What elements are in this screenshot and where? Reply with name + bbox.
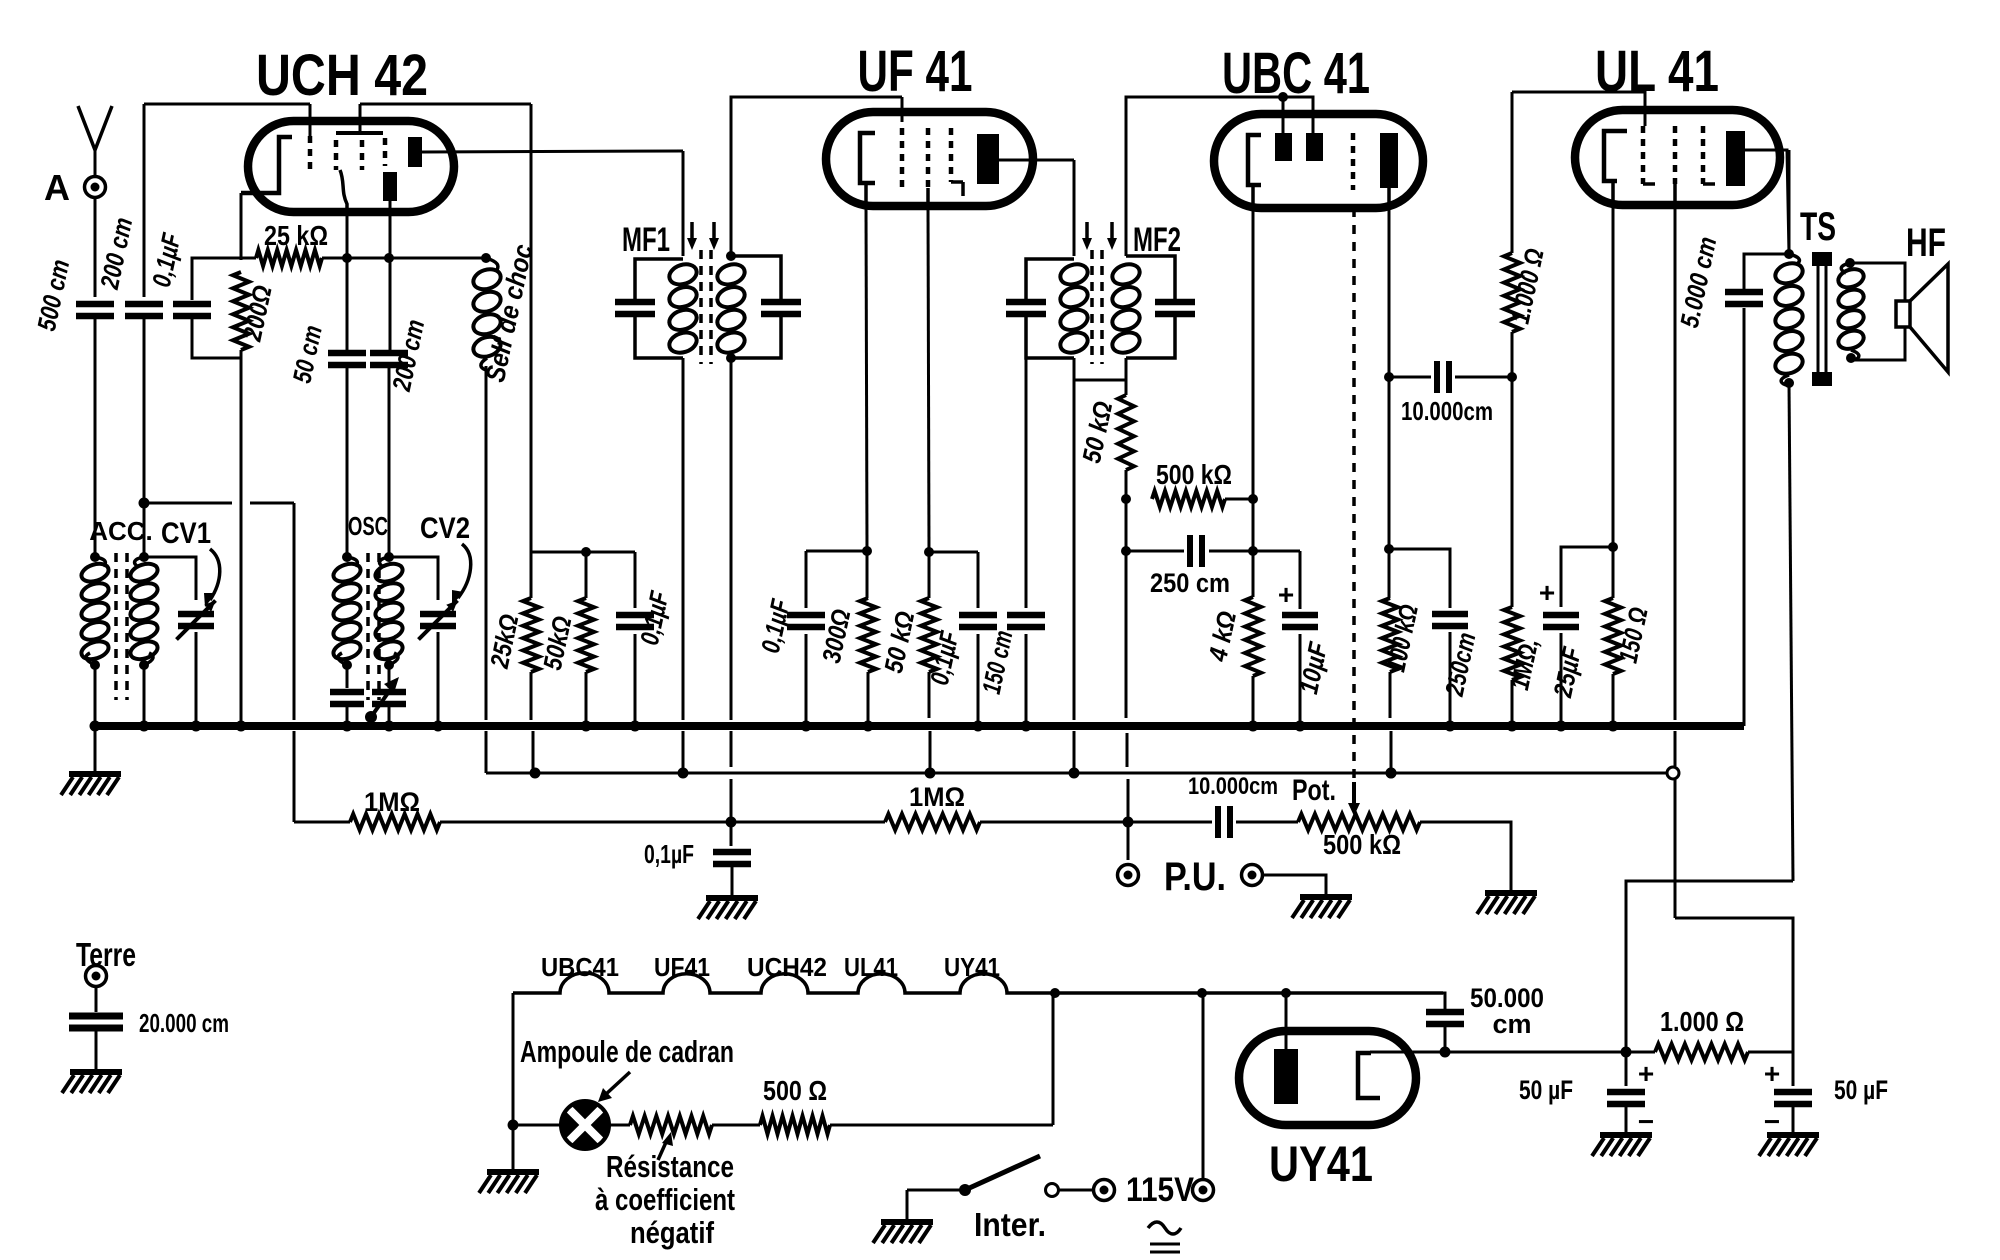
node B1 [1621,1047,1632,1058]
node bus 95 [90,721,101,732]
svg-text:MF1: MF1 [622,221,670,259]
svg-text:A: A [44,167,70,208]
pin UF41 g1 top [901,97,904,122]
wire top right [360,103,531,106]
coil ACC secondary [128,561,160,585]
svg-text:500 kΩ: 500 kΩ [1323,829,1401,860]
tube UBC41 [1214,114,1423,208]
tube UCH42 [248,121,454,212]
wire avc pu [1125,551,1128,718]
svg-text:+: + [1278,579,1294,610]
capacitor 10.000cm pu [1215,806,1221,838]
grid g1 UF41 [900,128,905,188]
resistor 50kOhm vert [585,552,588,598]
capacitor 25uF [1543,612,1579,619]
node 10uF bus [1295,721,1306,732]
svg-text:MF2: MF2 [1133,221,1181,259]
node MF2 rail [1069,768,1080,779]
wire MF1 feed [682,151,685,256]
node heater 1055 [1050,988,1060,998]
wire 200cm line lower [143,316,146,557]
wire bus up right [1743,308,1746,726]
svg-text:1MΩ: 1MΩ [364,787,420,817]
wire 200cm to OSC [388,365,391,557]
node TS top [1784,249,1794,259]
wire grid return top [144,502,232,505]
wire UY41 anode pin [1285,993,1288,1049]
wire ACC p down [94,663,97,726]
cathode UBC41 [1248,135,1261,185]
grid lead curve [340,170,347,212]
wire UBC41 cathode [1251,185,1255,208]
ground pot [1485,890,1537,896]
wire 10000cm row [1389,376,1431,379]
node heater 1286 [1281,988,1291,998]
svg-text:ACC.: ACC. [89,516,153,546]
svg-text:UY41: UY41 [1269,1136,1373,1192]
svg-text:500 Ω: 500 Ω [763,1075,827,1106]
node OSC s top [384,552,394,562]
svg-text:Inter.: Inter. [974,1206,1046,1243]
node bus 389 [384,721,395,732]
resistor 200Ohm [233,272,249,350]
svg-text:UF 41: UF 41 [858,39,973,104]
capacitor 0,1uF g2 [977,552,980,608]
supply rail [488,772,1671,775]
ground switch [881,1219,933,1225]
wire cath right [1445,1051,1655,1054]
wire choke to rail [485,731,488,773]
core TS [1817,256,1820,385]
svg-text:TS: TS [1800,205,1836,249]
node avc pu [1123,817,1134,828]
node 25k-a [384,253,394,263]
antenna A [78,106,112,150]
wire 500k right [1225,498,1253,501]
core OSC [366,553,370,700]
node 806 bus [801,721,812,732]
node 0,1uF bus [630,721,641,732]
wire cathode down [240,193,243,260]
node 150 bus [1608,721,1619,732]
transformer MF2 secondary [1110,261,1143,288]
resistor 500Ohm [760,1116,830,1134]
wire TS down [1789,383,1793,881]
node 250b bus [1445,721,1456,732]
wire 200cm line upper [143,104,146,297]
node 200cm-y503 [139,498,150,509]
transformer TS primary [1789,254,1799,264]
node avc 731 [726,817,737,828]
node avc 250 [1121,546,1131,556]
resistor 150Ohm [1612,547,1615,598]
node ACC p top [90,552,100,562]
wire 250b row [1389,549,1450,608]
grid UBC41 [1351,133,1356,190]
ground terre [70,1069,122,1075]
node bus 196 [191,721,202,732]
core MF2 [1090,250,1094,364]
wire MF1 sec down [730,362,733,720]
rail end circle [1667,767,1679,779]
svg-text:+: + [1764,1058,1780,1089]
svg-text:UCH 42: UCH 42 [256,43,428,108]
svg-text:P.U.: P.U. [1164,855,1226,899]
ground main [94,726,97,772]
node diode pin [1278,92,1288,102]
svg-text:500 kΩ: 500 kΩ [1156,459,1232,490]
cathode UL41 [1604,131,1627,181]
wire PU2 ground [1263,875,1326,895]
ground 50uF b [1767,1132,1819,1138]
resistor 50kOhm g2 [928,552,931,598]
resistor 1.000Ohm filter [1655,1044,1748,1060]
wire grid to 50cm [346,210,349,352]
capacitor 250cm b [1432,611,1468,618]
wire pot right [1420,822,1511,891]
wire UF41 g2 down [926,188,930,206]
node bus 241 [236,721,247,732]
wire CV1 top [144,557,196,600]
wire 25uF row [1561,547,1613,607]
svg-text:1MΩ: 1MΩ [909,782,965,812]
arrow core MF1 a [690,222,694,242]
node 50k bus [581,721,592,732]
wire res mid [712,1124,760,1127]
wire MF2 prim bottom [1073,358,1076,380]
arrow trimmer [371,683,395,717]
terminal PU 1 [1118,865,1139,886]
node UF41 g2 [924,547,934,557]
diode plate 2 [1306,133,1323,161]
anode heptode UCH42 [408,137,422,167]
capacitor 0,1uF grid [173,301,211,308]
svg-text:Pot.: Pot. [1292,774,1336,807]
wire terre [95,987,98,1012]
transformer MF1 primary [635,259,683,300]
cathode UCH42 [241,137,292,193]
wire 250cm row [1126,550,1184,553]
wire CV1 down [195,632,198,726]
node 4k bus [1248,721,1259,732]
anode UBC41 [1380,133,1398,188]
terminal Terre [86,966,107,987]
wire 50cm to OSC [346,365,349,557]
coil OSC primary [331,561,363,585]
ground heater [487,1169,539,1175]
resistor CTN [609,1124,630,1127]
capacitor 250cm [1187,535,1193,567]
svg-text:UL 41: UL 41 [1595,39,1719,104]
wire res right [830,1124,1053,1127]
wire CV2 down [437,632,440,726]
wire g2 row [929,551,978,554]
wire UL41 g2 top [1512,92,1645,112]
grid g3 UCH42 [334,140,339,170]
wire screen row [531,551,635,554]
grid g1 UCH42 [308,136,313,170]
anode UF41 [977,134,999,184]
ground PU [1300,894,1352,900]
wire rail path [1675,918,1793,1052]
wire 25k right [322,257,486,260]
switch Inter. [959,1184,971,1196]
svg-text:20.000 cm: 20.000 cm [139,1008,229,1038]
wire heater right corner [1443,993,1445,1010]
svg-text:25 kΩ: 25 kΩ [264,220,328,251]
variable capacitor CV1 [178,611,214,618]
svg-text:250 cm: 250 cm [1150,568,1230,598]
resistor 4kOhm [1252,499,1255,597]
wire triode anode [389,201,392,352]
svg-text:Résistance: Résistance [606,1149,734,1184]
capacitor MF1 secondary [761,299,801,306]
node 250 right [1248,546,1258,556]
wire g2 feed down [530,104,533,552]
tube UY41 [1239,1031,1416,1125]
grid g2 UL41 [1673,126,1678,184]
node 150cm bus [1021,721,1032,732]
capacitor 50uF b [1792,1052,1795,1086]
node anode 10000 [1384,372,1394,382]
coil ACC primary [79,561,111,585]
anode UL41 [1726,131,1745,186]
wire 500cm to ACC [94,316,97,557]
svg-text:UBC41: UBC41 [541,952,619,982]
wire UF41 anode [999,159,1074,162]
pin g1 top [309,104,312,136]
wire UF41 grid top [731,97,902,256]
wire filter right [1748,1051,1793,1054]
svg-text:négatif: négatif [630,1215,715,1250]
svg-text:1.000 Ω: 1.000 Ω [1660,1006,1744,1037]
wire k row [806,550,867,553]
node ACC s top [139,552,149,562]
wire UL41 cathode [1611,181,1615,205]
arrow CV1 [210,549,220,600]
node UF41 k [862,546,872,556]
node 0,1uFg2 bus [973,721,984,732]
node 25uF bus [1556,721,1567,732]
avc line 5 [1128,821,1212,824]
capacitor 10uF [1299,551,1302,609]
core MF1 [699,250,703,364]
grid g2 UF41 [926,128,931,188]
resistor 300Ohm [866,551,869,598]
node bus 144 [139,721,150,732]
resistor 50kOhm avc [1125,380,1128,395]
capacitor 500cm [76,301,114,308]
grid g2 UCH42 [360,140,365,170]
svg-text:OSC: OSC [348,511,388,541]
wire UBC41 diode top [1126,97,1313,256]
transformer TS secondary [1841,263,1850,273]
resistor 1MOhm a [350,814,440,830]
arrow CV2 [458,544,471,598]
node choke top [481,253,491,263]
wire heater left [512,993,515,1170]
wire switch right [1059,1189,1093,1192]
svg-text:Terre: Terre [76,936,136,973]
capacitor 50cm [328,350,366,357]
wire UF41 cathode [864,183,868,206]
anode triode UCH42 [383,172,397,201]
grid g3 UL41 [1701,126,1706,184]
capacitor 5.000cm [1725,289,1763,296]
wire UL grid circle [1674,779,1677,918]
node avc 500k [1121,494,1131,504]
node OSC p bot [342,660,352,670]
svg-text:à coefficient: à coefficient [595,1182,735,1217]
arrow core MF2 b [1110,222,1114,242]
svg-text:cm: cm [1492,1009,1531,1039]
wire heptode anode [422,151,683,152]
wire choke down [485,366,488,720]
wire top left [144,103,310,106]
capacitor MF2 primary [1006,299,1046,306]
node ACC s bot [139,660,149,670]
wire UBC41 grid dashed [1352,208,1356,780]
wire anode mid [1388,377,1391,598]
wire screen down [1511,377,1514,607]
capacitor 50uF a [1625,1052,1628,1086]
wire MF2 sec bottom [1125,358,1128,380]
svg-text:+: + [1638,1058,1654,1089]
grid strap UCH42 [336,131,383,135]
svg-text:HF: HF [1906,221,1946,265]
wire 0.1uF top [192,258,243,300]
grid g1 UL41 [1641,126,1646,184]
resistor 25kOhm [241,257,256,260]
avc line [294,821,350,824]
node anode 250b [1384,544,1394,554]
speaker HF [1896,301,1910,327]
wire lamp row [513,1124,561,1127]
pot wiper arrow [1352,782,1356,806]
node 25k-g [342,253,352,263]
node UL41 k [1608,542,1618,552]
terminal PU 2 [1242,865,1263,886]
potentiometer 500kOhm [1298,814,1420,830]
node 500k right [1248,494,1258,504]
svg-text:CV2: CV2 [420,512,470,545]
antenna terminal [85,177,106,198]
capacitor MF2 secondary [1155,299,1195,306]
grid g4 UCH42 [383,138,388,166]
grid g3 UF41 [949,128,954,182]
resistor 500kOhm [1152,491,1225,507]
wire 50k g2 rail [929,731,932,773]
node TS bot [1784,378,1794,388]
svg-text:50 µF: 50 µF [1519,1075,1573,1105]
trimmer osc [388,665,391,688]
wire avc down [1125,499,1128,551]
wire anode TS [1788,150,1791,254]
node bus 438 [433,721,444,732]
capacitor 50.000cm [1426,1009,1464,1016]
wire TS sec top [1850,263,1905,301]
node heater 1202 [1197,988,1207,998]
wire terre 2 [95,1029,98,1070]
arrow core MF2 a [1085,222,1089,242]
wire antenna down [94,198,97,297]
wire MF1 prim down [682,358,685,720]
avc line 3 [731,821,885,824]
wire 100k rail [1390,731,1393,773]
node 25k rail [530,768,541,779]
wire MF2 prim rail [1073,731,1076,773]
svg-text:Ampoule de cadran: Ampoule de cadran [520,1034,734,1069]
lamp Ampoule de cadran [561,1101,609,1149]
wire UL41 anode [1745,150,1789,254]
arrow Ampoule [605,1072,630,1095]
wire cathode out [1370,1051,1445,1054]
wire UL41 grid down [1673,184,1677,205]
svg-text:115V: 115V [1126,1171,1194,1209]
wire UBC41 anode down [1387,188,1391,208]
capacitor 200cm [125,301,163,308]
avc line 4 [980,821,1128,824]
avc line 2 [440,821,731,824]
diode plate 1 [1275,133,1292,161]
anode UY41 [1274,1049,1298,1104]
capacitor MF1 primary [615,299,655,306]
resistor 1MOhm b [885,814,980,830]
choke Self de choc [486,258,498,270]
node MF1 sec top [726,251,736,261]
pin g2 top [1644,92,1647,126]
capacitor 200cm osc [370,350,408,357]
wire switch [906,1190,909,1222]
node 50kg2 rail [925,768,936,779]
capacitor 150cm [1025,358,1028,608]
transformer MF2 primary [1026,259,1074,300]
node lamp [508,1120,519,1131]
terminal 115V b [1193,1180,1214,1201]
node MF1 sec bot [726,353,736,363]
cathode UY41 [1358,1053,1380,1098]
node MF1 rail [678,768,689,779]
svg-text:50 µF: 50 µF [1834,1075,1888,1105]
wire 4k row right [1253,550,1300,553]
node bus 347 [342,721,353,732]
transformer MF1 secondary [715,261,748,288]
tube UF41 [826,112,1033,206]
node 1Md bus [1507,721,1518,732]
wire TS to B1 [1626,881,1793,1052]
svg-text:0,1µF: 0,1µF [644,839,694,869]
wire 115V up [1202,993,1205,1179]
resistor 1MOhm d [1504,607,1520,680]
pin UBC41 diode1 [1282,97,1285,133]
capacitor 0,1uF k [805,551,808,608]
svg-text:10.000cm: 10.000cm [1401,396,1493,426]
capacitor 10.000cm [1434,361,1440,393]
ground 50uF a [1600,1132,1652,1138]
capacitor osc padder [346,665,349,688]
svg-text:10.000cm: 10.000cm [1188,773,1278,800]
arrow Resistance [658,1140,667,1160]
resistor 25kOhm vert [530,552,533,598]
wire CV2 top [389,557,438,600]
heater chain [513,973,1443,993]
core ACC [114,553,118,700]
wire TS sec bot [1851,327,1905,360]
wire grid return down [293,503,296,720]
cathode UF41 [860,133,875,183]
wire 25k to rail [532,731,535,773]
wire MF2 feed [1073,160,1076,256]
